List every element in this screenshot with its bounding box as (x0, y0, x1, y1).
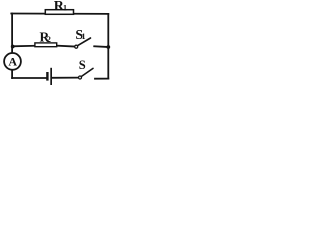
svg-text:A: A (8, 54, 17, 68)
wire top (11, 13, 108, 15)
wire bottom right (switch S to corner) (95, 78, 108, 80)
svg-text:1: 1 (82, 32, 86, 41)
wire bottom middle (battery to switch S) (52, 77, 78, 79)
svg-text:1: 1 (63, 3, 67, 12)
svg-text:2: 2 (47, 35, 51, 44)
wire middle right (switch S1 to right rail) (94, 45, 108, 48)
wire right vertical (107, 14, 109, 79)
resistor R2 (35, 30, 57, 47)
resistor R1 (45, 0, 73, 14)
wire middle left (node to R2) (12, 45, 35, 48)
battery cell (46, 68, 52, 85)
node junction dot right (106, 45, 110, 49)
wire left vertical (11, 14, 13, 79)
switch S (79, 58, 94, 79)
svg-text:S: S (79, 58, 86, 72)
wire bottom left (battery left lead) (12, 77, 46, 79)
ammeter A (4, 53, 21, 70)
switch S1 (75, 28, 91, 48)
wire middle (R2 to switch S1) (57, 45, 75, 48)
node junction dot left (11, 45, 15, 49)
